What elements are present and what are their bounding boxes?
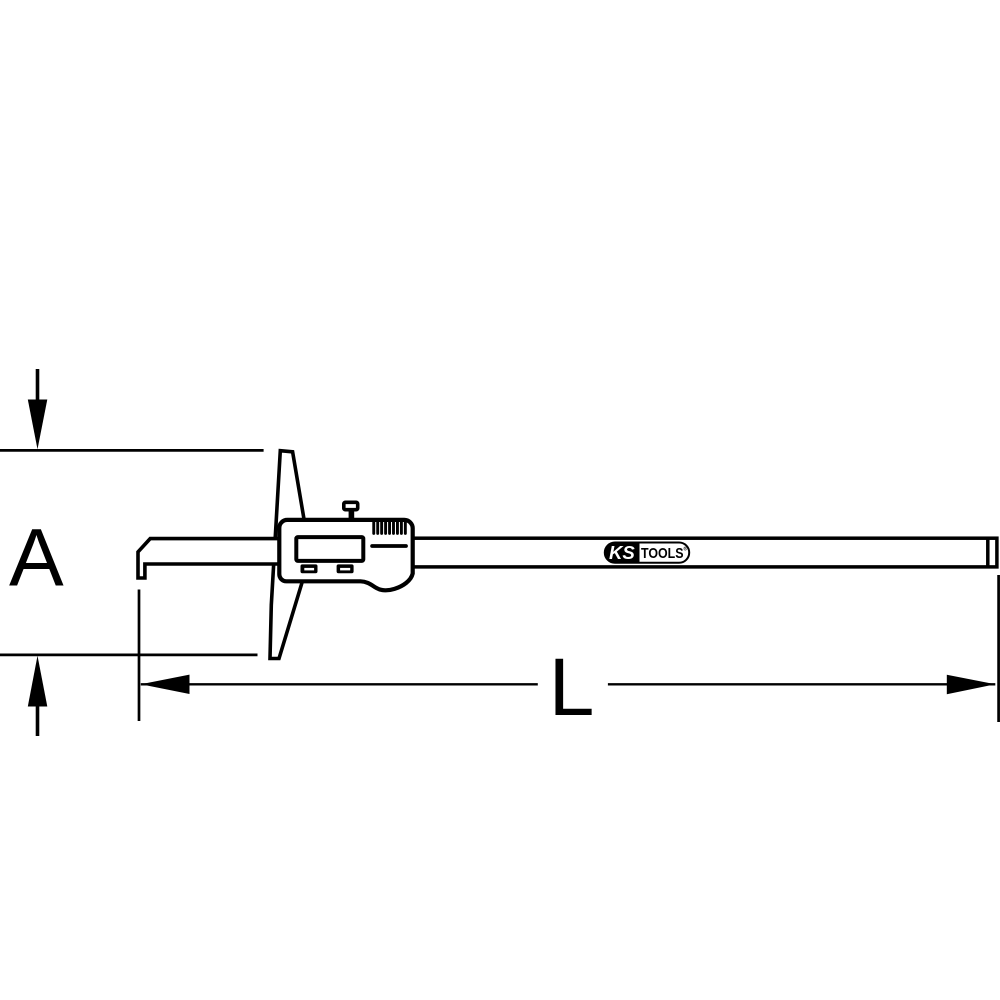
dimension L line left segment [141, 683, 538, 685]
svg-text:A: A [9, 513, 64, 604]
dimension A top arrow [28, 369, 48, 449]
caliper hook jaw arm [138, 539, 290, 578]
dimension L right arrowhead [947, 675, 996, 695]
right button [337, 564, 354, 573]
dimension L left arrowhead [141, 675, 190, 694]
beam separator line on housing [372, 544, 406, 548]
LCD window [296, 537, 363, 561]
svg-text:L: L [549, 642, 595, 733]
locking thumb screw stem [349, 508, 355, 520]
svg-text:KS: KS [609, 542, 635, 563]
left button [301, 564, 318, 573]
svg-text:TOOLS: TOOLS [641, 546, 684, 562]
dimension A bottom reference line [0, 654, 258, 657]
locking thumb screw head [344, 502, 358, 509]
dimension L right extension line [997, 575, 1000, 722]
digital display housing [279, 520, 412, 590]
dimension A top reference line [0, 449, 264, 452]
svg-text:®: ® [684, 546, 688, 553]
caliper beam rod [410, 538, 997, 567]
caliper depth base fin [270, 451, 304, 659]
dimension L line right segment [608, 683, 995, 685]
thumb grip serrations [374, 522, 406, 534]
KS TOOLS logo pill [605, 542, 689, 563]
dimension A bottom arrow [28, 656, 48, 736]
dimension L left extension line [138, 590, 141, 722]
beam end divider [986, 538, 990, 567]
